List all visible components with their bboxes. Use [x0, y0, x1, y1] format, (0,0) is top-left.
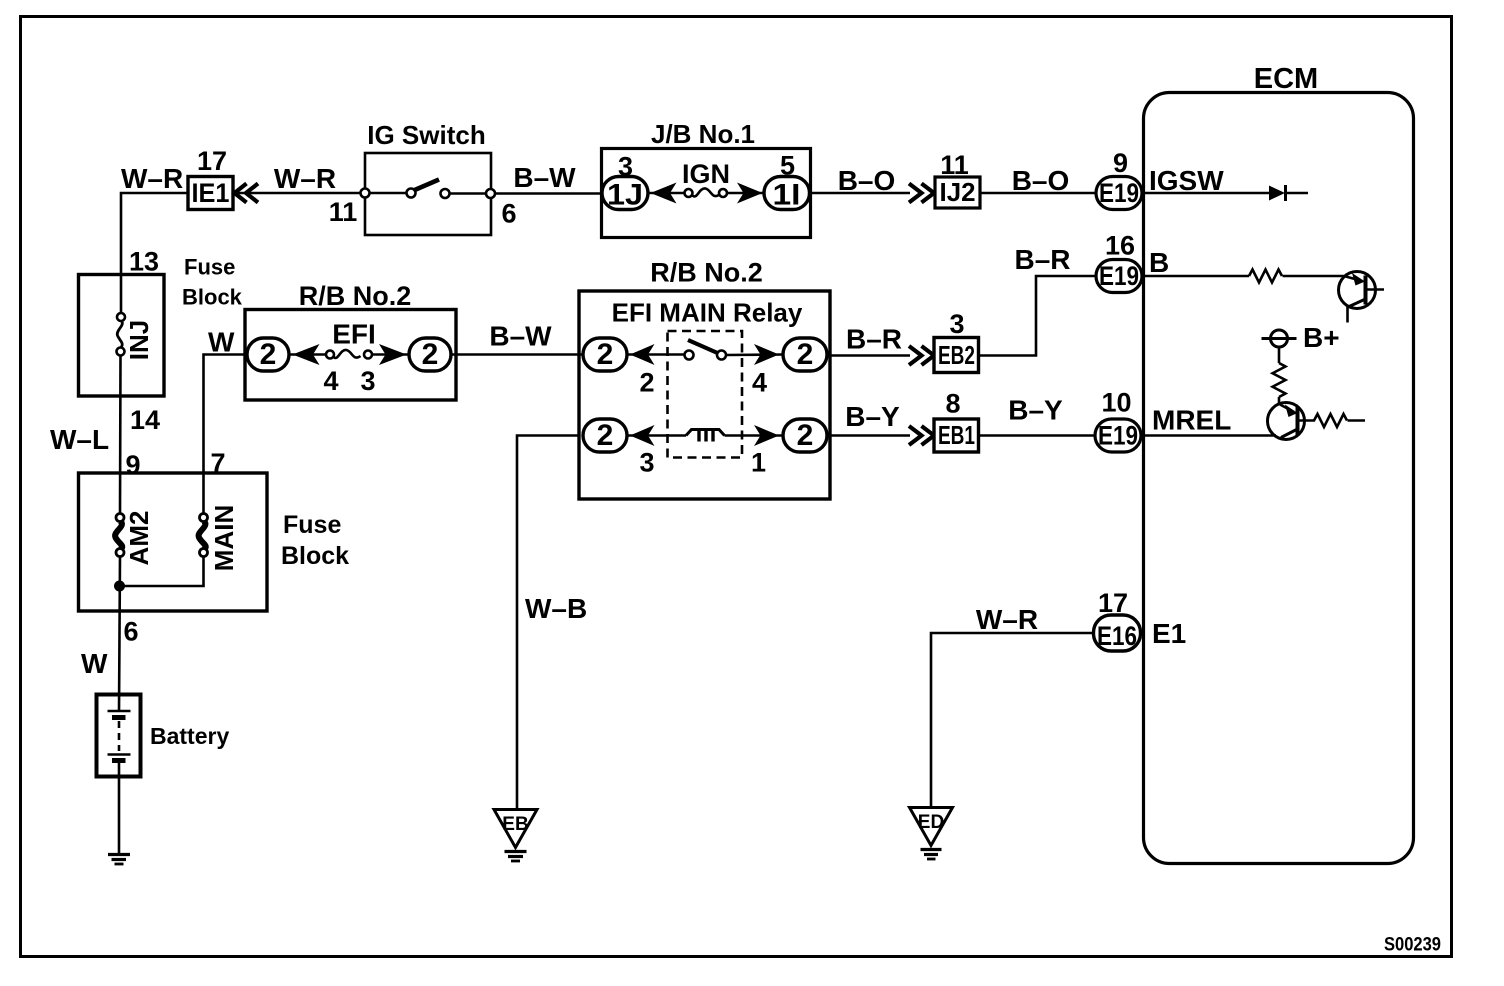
- arrow (right) at EFI: [379, 344, 407, 365]
- svg-text:IGN: IGN: [682, 159, 730, 189]
- svg-text:Fuse: Fuse: [184, 255, 235, 280]
- connector oval E19 pin 16: [1096, 260, 1142, 293]
- svg-text:2: 2: [597, 419, 614, 452]
- svg-text:MAIN: MAIN: [209, 505, 239, 571]
- svg-text:E1: E1: [1152, 618, 1186, 649]
- wire inside: [289, 353, 330, 356]
- relay oval 2 (bottom-left): [583, 419, 627, 452]
- wire W-R from ED ground to E16: [931, 633, 1094, 808]
- wire B-R net: EB2 to E19 pin 16: [978, 276, 1096, 356]
- relay oval 2 (top-right): [783, 338, 827, 371]
- connector EB1: [934, 419, 979, 452]
- svg-text:2: 2: [260, 338, 277, 371]
- wire AM2 down through junction to battery: [119, 557, 120, 712]
- R/B No.2 fuse block (EFI): [245, 310, 456, 401]
- svg-text:B–O: B–O: [1012, 165, 1070, 196]
- svg-text:14: 14: [130, 405, 160, 435]
- IG switch lever: [414, 180, 440, 191]
- svg-text:Battery: Battery: [150, 723, 229, 749]
- ECM block U1: [1144, 93, 1414, 864]
- arrow chevrons << at IE1: [235, 184, 247, 203]
- svg-text:2: 2: [797, 419, 814, 452]
- wire relay to EB2: [827, 354, 910, 357]
- wire relay to EB1: [827, 434, 910, 437]
- svg-text:INJ: INJ: [124, 320, 154, 360]
- svg-text:S00239: S00239: [1384, 935, 1441, 956]
- svg-text:W–B: W–B: [525, 593, 587, 624]
- fuse INJ: [117, 321, 122, 349]
- svg-text:3: 3: [949, 309, 964, 339]
- wire B inside ECM: [1142, 275, 1249, 278]
- fuse AM2: [115, 521, 122, 550]
- connector EB2: [934, 338, 979, 373]
- relay switch wire: [627, 353, 684, 356]
- J/B No.1 junction block: [602, 149, 811, 238]
- svg-text:17: 17: [1098, 588, 1128, 618]
- svg-text:R/B No.2: R/B No.2: [650, 258, 763, 288]
- svg-text:Block: Block: [182, 285, 243, 310]
- connector oval E19 pin 9: [1096, 177, 1142, 210]
- arrow (right) relay top: [754, 344, 779, 365]
- ground marks (EB): [505, 850, 527, 853]
- svg-text:W–R: W–R: [121, 163, 183, 194]
- ground triangle EB: [494, 810, 537, 848]
- svg-text:EFI: EFI: [332, 319, 376, 350]
- relay oval 2 (top-left): [583, 338, 627, 371]
- svg-text:3: 3: [360, 366, 375, 396]
- svg-text:IJ2: IJ2: [940, 177, 976, 207]
- wire INJ to AM2: [119, 356, 122, 514]
- arrow (right) at 1I: [737, 183, 763, 204]
- svg-text:J/B No.1: J/B No.1: [651, 119, 755, 149]
- diode D1: [1269, 186, 1285, 201]
- svg-text:Fuse: Fuse: [283, 511, 341, 539]
- wire IG switch to J/B No.1: [495, 192, 602, 195]
- svg-text:IG Switch: IG Switch: [367, 120, 485, 150]
- resistor R2: [1273, 363, 1286, 397]
- svg-text:B+: B+: [1303, 322, 1340, 353]
- wire W-R from IE1 left going down to INJ: [121, 193, 188, 313]
- svg-text:E19: E19: [1099, 261, 1139, 291]
- connector oval E16 pin 17: [1094, 615, 1141, 651]
- arrow (left) relay top: [630, 344, 655, 365]
- arrow chevrons >> at IJ2: [909, 184, 922, 203]
- svg-text:AM2: AM2: [124, 511, 154, 566]
- svg-text:EB2: EB2: [938, 340, 975, 370]
- svg-text:17: 17: [197, 146, 227, 176]
- R/B No.2 relay block: [579, 291, 830, 499]
- svg-text:1I: 1I: [773, 179, 801, 212]
- svg-text:5: 5: [780, 151, 795, 181]
- svg-text:B–W: B–W: [489, 321, 552, 352]
- svg-text:11: 11: [329, 197, 358, 227]
- IG Switch SW1: [365, 153, 491, 235]
- relay coil wire: [627, 434, 686, 437]
- ground (battery): [108, 853, 130, 856]
- B+ supply node: [1271, 330, 1288, 347]
- arrow (left) at EFI: [293, 344, 320, 365]
- IG switch pin 6 circle: [486, 189, 495, 198]
- svg-text:2: 2: [422, 338, 439, 371]
- relay coil: [686, 430, 725, 436]
- svg-text:10: 10: [1101, 388, 1131, 418]
- svg-text:IE1: IE1: [192, 178, 230, 208]
- IG switch internal wire: [365, 192, 407, 195]
- Fuse Block (INJ): [79, 275, 165, 397]
- svg-text:B–Y: B–Y: [1008, 395, 1063, 426]
- connector oval 2 (left): [247, 338, 289, 371]
- resistor R1: [1249, 270, 1282, 283]
- arrow chevrons >> at EB2: [909, 346, 922, 365]
- connector IE1: [188, 177, 233, 210]
- Fuse Block (AM2/MAIN): [79, 473, 268, 611]
- relay switch contacts: [685, 351, 694, 360]
- wire W net from EFI down to MAIN fuse: [204, 355, 246, 514]
- svg-text:EB1: EB1: [938, 420, 975, 450]
- wire W-B from relay coil to EB ground: [517, 436, 579, 810]
- svg-text:B–O: B–O: [838, 165, 896, 196]
- wire inside J/B: [648, 192, 688, 195]
- svg-text:4: 4: [323, 366, 338, 396]
- wire battery to ground: [118, 762, 121, 853]
- ground marks (ED): [921, 848, 942, 851]
- svg-text:2: 2: [639, 368, 654, 398]
- wire EFI to relay (B-W): [451, 353, 583, 356]
- fuse EFI symbol: [334, 350, 361, 358]
- Battery BAT: [97, 695, 141, 777]
- wire MAIN to junction: [120, 557, 204, 587]
- svg-text:2: 2: [597, 338, 614, 371]
- ground triangle ED: [910, 808, 953, 846]
- svg-text:W–R: W–R: [274, 163, 336, 194]
- relay switch lever: [688, 340, 718, 353]
- svg-text:16: 16: [1105, 231, 1135, 261]
- wire R3 stub: [1348, 419, 1366, 422]
- wire MREL inside ECM: [1141, 434, 1276, 437]
- wire IJ2 to E19: [980, 192, 1096, 195]
- svg-text:B: B: [1149, 247, 1169, 278]
- svg-text:13: 13: [129, 247, 159, 277]
- svg-text:9: 9: [125, 450, 140, 480]
- svg-text:6: 6: [123, 617, 138, 647]
- svg-text:EB: EB: [502, 814, 528, 835]
- wire IE1 to IG switch: [233, 192, 365, 195]
- resistor R3: [1314, 414, 1347, 427]
- svg-text:E19: E19: [1099, 178, 1139, 208]
- connector oval E19 pin 10: [1095, 419, 1141, 452]
- svg-text:R/B No.2: R/B No.2: [299, 281, 412, 311]
- junction node: [114, 581, 125, 592]
- wire B+ to R2: [1278, 347, 1281, 363]
- svg-text:11: 11: [940, 150, 969, 180]
- svg-text:8: 8: [945, 389, 960, 419]
- transistor Q1: [1339, 272, 1376, 309]
- arrow chevrons >> at EB1: [909, 426, 922, 445]
- svg-text:W: W: [81, 648, 108, 679]
- IG switch contact circles: [407, 189, 416, 198]
- transistor Q2: [1268, 403, 1305, 440]
- wire IGSW inside ECM: [1142, 192, 1270, 195]
- svg-text:W–R: W–R: [976, 604, 1038, 635]
- arrow (right) relay bottom: [754, 425, 779, 446]
- arrow (left) relay bottom: [630, 425, 655, 446]
- svg-text:Block: Block: [281, 542, 349, 570]
- svg-text:B–W: B–W: [513, 162, 576, 193]
- svg-text:IGSW: IGSW: [1149, 165, 1224, 196]
- connector oval 2 (right): [409, 338, 451, 371]
- svg-text:B–R: B–R: [1014, 244, 1070, 275]
- svg-text:E19: E19: [1098, 421, 1138, 451]
- wire R2 to Q2: [1278, 397, 1281, 404]
- svg-text:MREL: MREL: [1152, 405, 1231, 436]
- svg-text:9: 9: [1113, 148, 1128, 178]
- svg-text:6: 6: [501, 199, 516, 229]
- IG switch pin 11 circle: [361, 189, 370, 198]
- svg-text:4: 4: [752, 368, 767, 398]
- svg-text:W: W: [208, 327, 235, 358]
- svg-text:W–L: W–L: [50, 424, 109, 455]
- fuse MAIN: [199, 521, 206, 550]
- wire EB1 to E19 pin 10: [979, 434, 1096, 437]
- svg-text:E16: E16: [1097, 621, 1137, 651]
- svg-text:B–R: B–R: [846, 324, 902, 355]
- svg-text:ED: ED: [918, 812, 944, 833]
- svg-text:1: 1: [751, 448, 766, 478]
- svg-text:2: 2: [797, 338, 814, 371]
- svg-text:ECM: ECM: [1254, 63, 1318, 95]
- connector oval 1J: [602, 177, 648, 210]
- relay oval 2 (bottom-right): [783, 419, 827, 452]
- svg-text:1J: 1J: [607, 179, 643, 212]
- connector IJ2: [935, 177, 980, 208]
- svg-text:B–Y: B–Y: [845, 401, 900, 432]
- connector oval 1I: [764, 177, 810, 210]
- svg-text:EFI MAIN Relay: EFI MAIN Relay: [612, 298, 803, 328]
- arrow (left) at 1J: [651, 183, 677, 204]
- relay dashed outline: [668, 331, 743, 458]
- wire resistor to Q1: [1283, 275, 1346, 278]
- wire J/B No.1 to IJ2: [810, 192, 910, 195]
- svg-text:3: 3: [639, 448, 654, 478]
